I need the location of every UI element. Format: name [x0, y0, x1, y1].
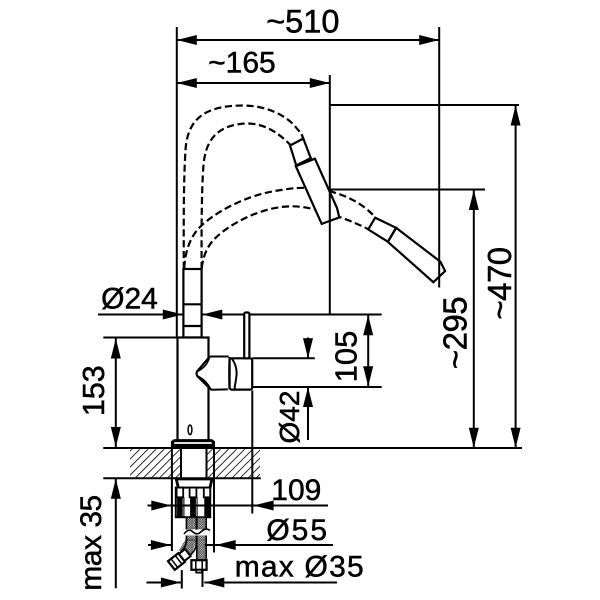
- dimension ~295: [473, 190, 475, 448]
- dimension 153: [115, 339, 117, 448]
- counter bottom line: [103, 477, 260, 479]
- dimension 105: [367, 315, 369, 386]
- reference line barrel bottom (y=387): [253, 386, 382, 388]
- dimension ~470: [515, 106, 517, 448]
- dimension Ø24: [163, 310, 183, 320]
- reference line barrel top (y=358.3): [252, 357, 315, 359]
- extension line x=439 (reach ~510): [438, 27, 440, 288]
- dimension 109: [148, 505, 176, 507]
- extension line flange left: [171, 441, 173, 551]
- faucet body column: [178, 338, 209, 441]
- riser joint 2: [183, 325, 201, 327]
- svg-text:~165: ~165: [208, 47, 276, 80]
- hose right braided: [197, 517, 206, 561]
- spout arc2 lower dashed: [202, 206, 369, 268]
- extension line hose left: [181, 570, 183, 589]
- svg-text:~295: ~295: [437, 297, 474, 369]
- svg-text:max Ø35: max Ø35: [235, 551, 365, 584]
- elbow nut big: [168, 553, 185, 570]
- svg-text:~510: ~510: [266, 4, 339, 40]
- stud right black: [204, 497, 209, 517]
- spray head 1 body: [296, 159, 340, 224]
- under-counter cone: [176, 479, 212, 489]
- reference line lowered spout top (y=189.5): [330, 189, 485, 191]
- counter hatch left: [130, 449, 181, 477]
- dimension 109 line through bracket: [175, 505, 214, 507]
- spout arc2 upper dashed: [184, 188, 375, 268]
- stud middle black: [190, 497, 196, 517]
- hose break mark: [183, 530, 209, 536]
- reference line top of spout (y=105): [330, 104, 519, 106]
- extension line flange right: [213, 441, 215, 553]
- riser joint 1: [183, 303, 201, 305]
- dimension ~510: [177, 39, 439, 41]
- svg-text:153: 153: [77, 365, 111, 416]
- hose tubes in bracket: [183, 497, 185, 517]
- spray head 1 connector: [290, 139, 311, 166]
- socket divider: [228, 357, 230, 389]
- svg-text:~470: ~470: [481, 247, 518, 319]
- shank through counter: [180, 447, 182, 478]
- hose left braided: [186, 517, 196, 541]
- elbow nut small: [176, 549, 190, 563]
- dimension Ø42: [307, 338, 309, 359]
- mounting bracket box: [176, 488, 210, 518]
- counter top line: [103, 447, 522, 449]
- cartridge barrel: [230, 358, 253, 389]
- lever rod: [244, 313, 249, 359]
- hose left bend: [179, 538, 197, 557]
- stud left black: [177, 497, 183, 517]
- hose end stub: [302, 134, 304, 140]
- reference line body top ext: [103, 337, 177, 339]
- svg-text:Ø24: Ø24: [101, 283, 158, 316]
- dimension Ø55: [148, 544, 171, 546]
- svg-text:109: 109: [271, 474, 321, 507]
- right hose nut: [191, 560, 206, 570]
- svg-text:Ø42: Ø42: [274, 391, 305, 444]
- wedge joint: [197, 357, 212, 390]
- stud top outlines: [177, 488, 184, 498]
- socket concave line: [232, 359, 236, 389]
- right hose stub: [196, 570, 202, 573]
- spout arc1 outer dashed: [184, 106, 302, 270]
- svg-text:max 35: max 35: [75, 495, 108, 590]
- spout arc1 inner dashed: [202, 124, 290, 270]
- logo oval: [188, 425, 192, 435]
- extension line barrel right: [251, 391, 253, 514]
- riser pipe: [183, 269, 201, 338]
- reference line lever top (y=314.5): [98, 314, 183, 316]
- extension line left (riser axis left): [176, 27, 178, 337]
- dimension max 35: [115, 479, 117, 589]
- extension line x=330 (reach ~165): [329, 75, 331, 314]
- socket piece: [210, 357, 229, 390]
- svg-text:Ø55: Ø55: [266, 514, 329, 547]
- dimension ~165: [177, 82, 330, 84]
- svg-text:105: 105: [329, 331, 364, 383]
- base flange: [173, 441, 214, 447]
- spray head 2 connector: [368, 218, 396, 242]
- extension line hose right: [202, 569, 204, 588]
- dimension max Ø35: [147, 582, 181, 584]
- counter hatch right: [207, 449, 261, 477]
- spray head 2 body: [388, 228, 445, 282]
